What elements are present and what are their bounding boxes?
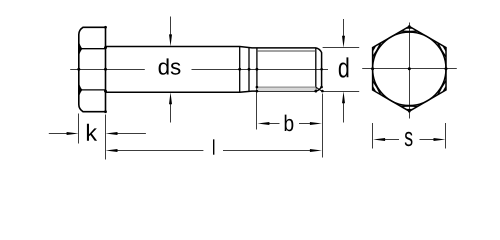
- dimension d lower arrow: [343, 100, 345, 123]
- hex corner arc top-right: [438, 43, 446, 57]
- dimension d extension bottom: [323, 91, 360, 93]
- thread runout vertical 2: [248, 48, 250, 92]
- dimension s line right: [420, 139, 436, 141]
- thread root gray band bottom: [257, 87, 316, 91]
- dimension d extension top: [323, 47, 360, 49]
- hex head chamfer circle: [373, 32, 446, 105]
- dimension d upper arrow: [343, 19, 345, 37]
- hex corner fill bottom-left: [373, 85, 377, 92]
- hex corner fill top-right: [442, 45, 446, 52]
- centerline of bolt axis: [70, 69, 328, 71]
- label l: [213, 139, 214, 154]
- thread start vertical 3: [256, 48, 258, 91]
- dimension ds upper arrow: [170, 17, 172, 38]
- hex corner fill bottom: [405, 109, 413, 111]
- head facet line lower: [79, 89, 105, 91]
- hexagon end view centerline horizontal: [362, 68, 457, 70]
- head chamfer arc wedge lower: [78, 83, 83, 97]
- label k: [87, 124, 97, 141]
- hex head side view outline: [79, 27, 106, 111]
- hex head end view outline: [373, 26, 446, 111]
- dimension ds lower arrow: [170, 102, 172, 123]
- hex corner fill top-left: [373, 45, 377, 52]
- hex corner arc bottom: [401, 105, 417, 107]
- label ds: [159, 58, 181, 74]
- hex corner fill bottom-right: [442, 85, 446, 92]
- dimension k left line: [49, 133, 70, 135]
- dimension s line left: [384, 139, 400, 141]
- hex corner fill top: [405, 26, 413, 28]
- label b: [285, 115, 294, 132]
- dimension l line: [115, 150, 313, 152]
- dimension b line: [267, 123, 313, 125]
- tip chamfer cross diagonal: [316, 87, 322, 91]
- hex corner arc bottom-left: [373, 81, 381, 95]
- label d: [339, 57, 349, 77]
- thread minor diameter top line: [257, 50, 316, 52]
- shank outline: [106, 47, 322, 93]
- extension line thread start: [256, 91, 258, 129]
- thread runout vertical 1: [239, 47, 241, 93]
- tip chamfer vertical: [315, 48, 317, 91]
- hex corner arc top: [401, 30, 417, 32]
- hex corner arc top-left: [373, 43, 381, 57]
- hexagon end view centerline vertical: [409, 23, 411, 119]
- hex corner arc bottom-right: [438, 81, 446, 95]
- label s: [405, 132, 413, 146]
- extension line head right: [105, 115, 107, 160]
- extension line head left: [78, 114, 80, 144]
- extension line bolt tip: [322, 94, 324, 158]
- thread minor diameter bottom line: [257, 86, 316, 88]
- extension line hex right flat: [445, 123, 447, 149]
- head chamfer arc wedge upper: [78, 42, 83, 56]
- dimension k right line: [115, 133, 146, 135]
- head facet line upper: [79, 48, 105, 50]
- extension line hex left flat: [372, 123, 374, 149]
